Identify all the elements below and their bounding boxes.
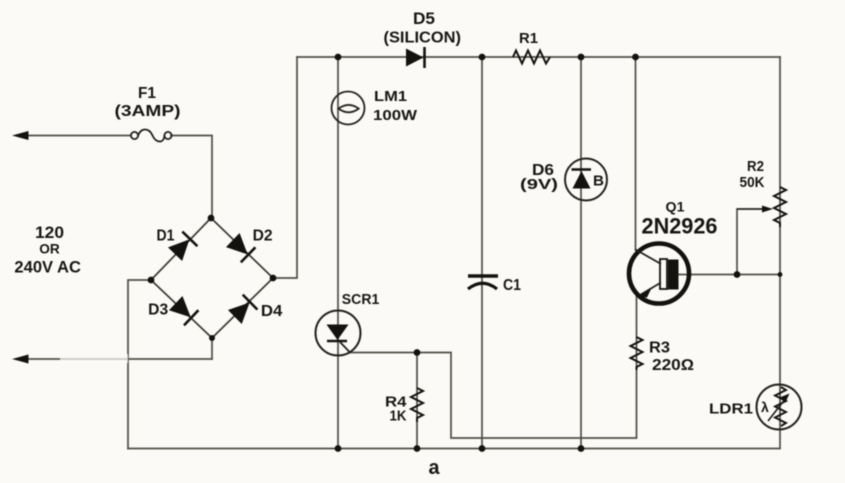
wire right rail xyxy=(779,57,781,449)
svg-text:OR: OR xyxy=(39,241,60,257)
wire AC input bottom lead xyxy=(24,358,212,360)
svg-text:(SILICON): (SILICON) xyxy=(384,30,462,47)
svg-text:50K: 50K xyxy=(740,174,765,191)
node top rail / Q1 xyxy=(632,54,639,61)
node bridge right xyxy=(270,275,277,282)
svg-text:LDR1: LDR1 xyxy=(709,401,753,418)
svg-text:100W: 100W xyxy=(373,108,417,124)
AC arrow bottom xyxy=(12,355,29,364)
svg-text:Q1: Q1 xyxy=(666,199,685,215)
svg-text:D2: D2 xyxy=(253,228,273,245)
fuse F1 xyxy=(131,130,172,142)
AC arrow top xyxy=(12,131,29,140)
resistor R1 xyxy=(513,51,550,64)
svg-text:a: a xyxy=(429,457,441,479)
svg-text:R3: R3 xyxy=(649,340,670,357)
wire resistor R4 branch xyxy=(416,353,418,449)
diode D2 xyxy=(227,234,256,263)
wire Q1 emitter to R3 xyxy=(636,296,638,438)
svg-text:(9V): (9V) xyxy=(520,176,558,193)
svg-text:D5: D5 xyxy=(413,10,435,28)
node bridge top xyxy=(208,215,215,222)
wire top rail xyxy=(297,56,780,58)
SCR1 xyxy=(316,311,361,356)
resistor R3 xyxy=(631,337,643,370)
wire bridge bottom stub xyxy=(211,338,213,359)
photocell LDR1 xyxy=(757,385,802,430)
wire D6 branch xyxy=(580,57,582,449)
svg-text:D3: D3 xyxy=(148,302,168,319)
node bottom rail / R4 xyxy=(414,445,421,452)
node Q1 base / R2 wiper xyxy=(734,271,741,278)
potentiometer R2 xyxy=(737,187,786,227)
diode D3 xyxy=(170,297,199,326)
node bridge left xyxy=(148,277,155,284)
node bottom rail / D6 xyxy=(578,445,585,452)
wire lamp / SCR branch xyxy=(337,57,339,449)
svg-text:D1: D1 xyxy=(157,228,175,245)
svg-text:λ: λ xyxy=(761,399,769,415)
node top rail / lamp xyxy=(335,54,342,61)
transistor Q1 xyxy=(629,244,689,304)
node R4 top xyxy=(414,349,421,356)
wire left vertical from top rail to bridge right node xyxy=(273,57,297,278)
svg-text:220Ω: 220Ω xyxy=(652,357,694,374)
svg-text:C1: C1 xyxy=(503,277,521,294)
wire AC input top lead xyxy=(24,135,131,137)
svg-text:240V AC: 240V AC xyxy=(14,259,81,277)
lamp LM1 xyxy=(332,92,365,125)
node bridge bottom xyxy=(209,335,215,341)
resistor R4 xyxy=(411,388,423,422)
node bottom rail / SCR xyxy=(335,445,342,452)
diode bridge wires xyxy=(151,218,273,338)
svg-text:D4: D4 xyxy=(261,303,283,320)
node top rail / C1 xyxy=(479,54,486,61)
svg-text:1K: 1K xyxy=(390,408,407,425)
wire C1 branch xyxy=(481,57,483,449)
svg-text:(3AMP): (3AMP) xyxy=(115,103,181,120)
wire SCR gate run xyxy=(350,353,636,439)
node bottom rail / C1 xyxy=(479,445,486,452)
diode D1 xyxy=(169,232,198,261)
node top rail / D6 xyxy=(578,54,585,61)
svg-text:B: B xyxy=(593,173,604,190)
wire Q1 base run xyxy=(679,274,781,276)
svg-text:2N2926: 2N2926 xyxy=(642,214,718,239)
svg-text:R2: R2 xyxy=(747,158,764,175)
svg-text:SCR1: SCR1 xyxy=(342,292,380,308)
wire fuse to bridge top xyxy=(171,136,212,219)
wire R2 wiper run xyxy=(736,209,738,275)
wire bridge left node to bottom rail xyxy=(128,280,151,449)
svg-text:LM1: LM1 xyxy=(374,89,407,105)
diode D4 xyxy=(229,295,258,324)
diode D5 xyxy=(406,47,425,68)
wire Q1 collector branch xyxy=(635,57,637,250)
svg-text:R1: R1 xyxy=(519,30,538,47)
zener D6 xyxy=(565,159,607,201)
node base to right rail xyxy=(778,272,783,277)
svg-text:F1: F1 xyxy=(138,85,156,102)
scan fade artifact on lower AC wire xyxy=(60,354,128,363)
capacitor C1 xyxy=(468,276,498,289)
wire bottom rail xyxy=(128,448,779,450)
svg-text:120: 120 xyxy=(35,224,64,242)
